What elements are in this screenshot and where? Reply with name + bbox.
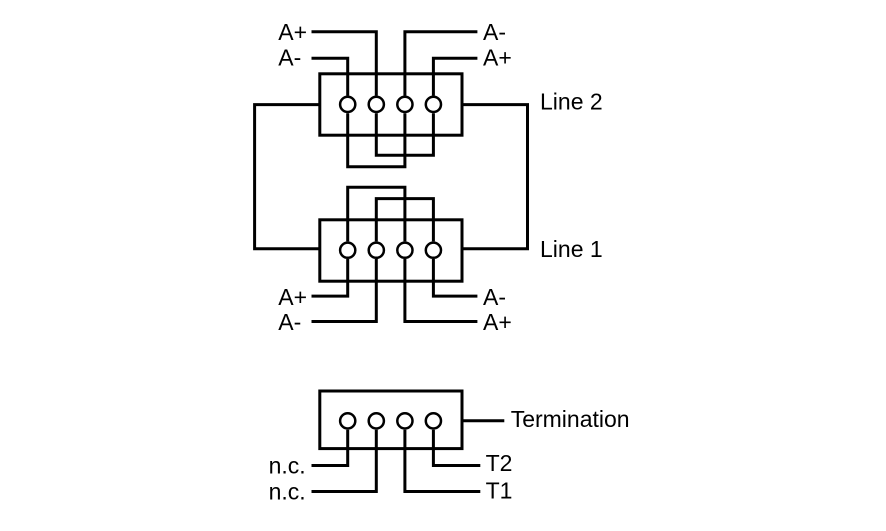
pin 4 of Termination [426, 413, 441, 428]
svg-text:n.c.: n.c. [269, 479, 306, 505]
wire A- top-right to pin 3 of Line 2 [405, 32, 478, 96]
wire jumper pin1-pin3 above Line 1 [348, 187, 405, 241]
wire A+ top-left to pin 2 of Line 2 [312, 32, 377, 96]
pin 3 of Line 2 [397, 97, 412, 112]
connector box Termination [320, 391, 462, 449]
wire Termination from box right edge [462, 419, 504, 422]
pin 1 of Line 1 [340, 243, 355, 258]
svg-text:A-: A- [483, 19, 506, 45]
wire right bus Line 2 to Line 1 [462, 105, 528, 249]
svg-text:A-: A- [278, 45, 301, 71]
connector box Line 1 [320, 220, 462, 281]
wire left bus Line 2 to Line 1 [255, 105, 320, 249]
wire A- top-left to pin 1 of Line 2 [312, 58, 348, 95]
svg-text:A+: A+ [278, 19, 307, 45]
wire A+ bottom-left to pin 1 of Line 1 [312, 259, 348, 296]
svg-text:A+: A+ [278, 284, 307, 310]
svg-text:A+: A+ [483, 309, 512, 335]
pin 1 of Line 2 [340, 97, 355, 112]
pin 4 of Line 2 [426, 97, 441, 112]
svg-text:A-: A- [483, 284, 506, 310]
wire A+ bottom-right to pin 3 of Line 1 [405, 259, 478, 322]
pin 1 of Termination [340, 413, 355, 428]
svg-text:A+: A+ [483, 45, 512, 71]
wire n.c. to pin 2 of Termination [312, 430, 377, 492]
pin 3 of Termination [397, 413, 412, 428]
pin 4 of Line 1 [426, 243, 441, 258]
wire jumper pin2-pin4 below Line 2 [376, 113, 433, 155]
svg-text:A-: A- [278, 309, 301, 335]
wire T2 to pin 4 of Termination [433, 430, 480, 466]
connector box Line 2 [320, 74, 462, 135]
svg-text:Line 2: Line 2 [540, 89, 603, 115]
svg-text:n.c.: n.c. [269, 453, 306, 479]
svg-text:T2: T2 [486, 450, 513, 476]
pin 2 of Termination [369, 413, 384, 428]
wire A+ top-right to pin 4 of Line 2 [433, 58, 477, 95]
wire A- bottom-right to pin 4 of Line 1 [433, 259, 477, 296]
wire T1 to pin 3 of Termination [405, 430, 480, 492]
svg-text:T1: T1 [486, 477, 513, 503]
svg-text:Termination: Termination [511, 406, 630, 432]
pin 2 of Line 1 [369, 243, 384, 258]
wire n.c. to pin 1 of Termination [312, 430, 348, 466]
wire jumper pin1-pin3 below Line 2 [348, 113, 405, 167]
wire A- bottom-left to pin 2 of Line 1 [312, 259, 377, 322]
wire jumper pin2-pin4 above Line 1 [376, 199, 433, 242]
pin 3 of Line 1 [397, 243, 412, 258]
pin 2 of Line 2 [369, 97, 384, 112]
svg-text:Line 1: Line 1 [540, 236, 603, 262]
